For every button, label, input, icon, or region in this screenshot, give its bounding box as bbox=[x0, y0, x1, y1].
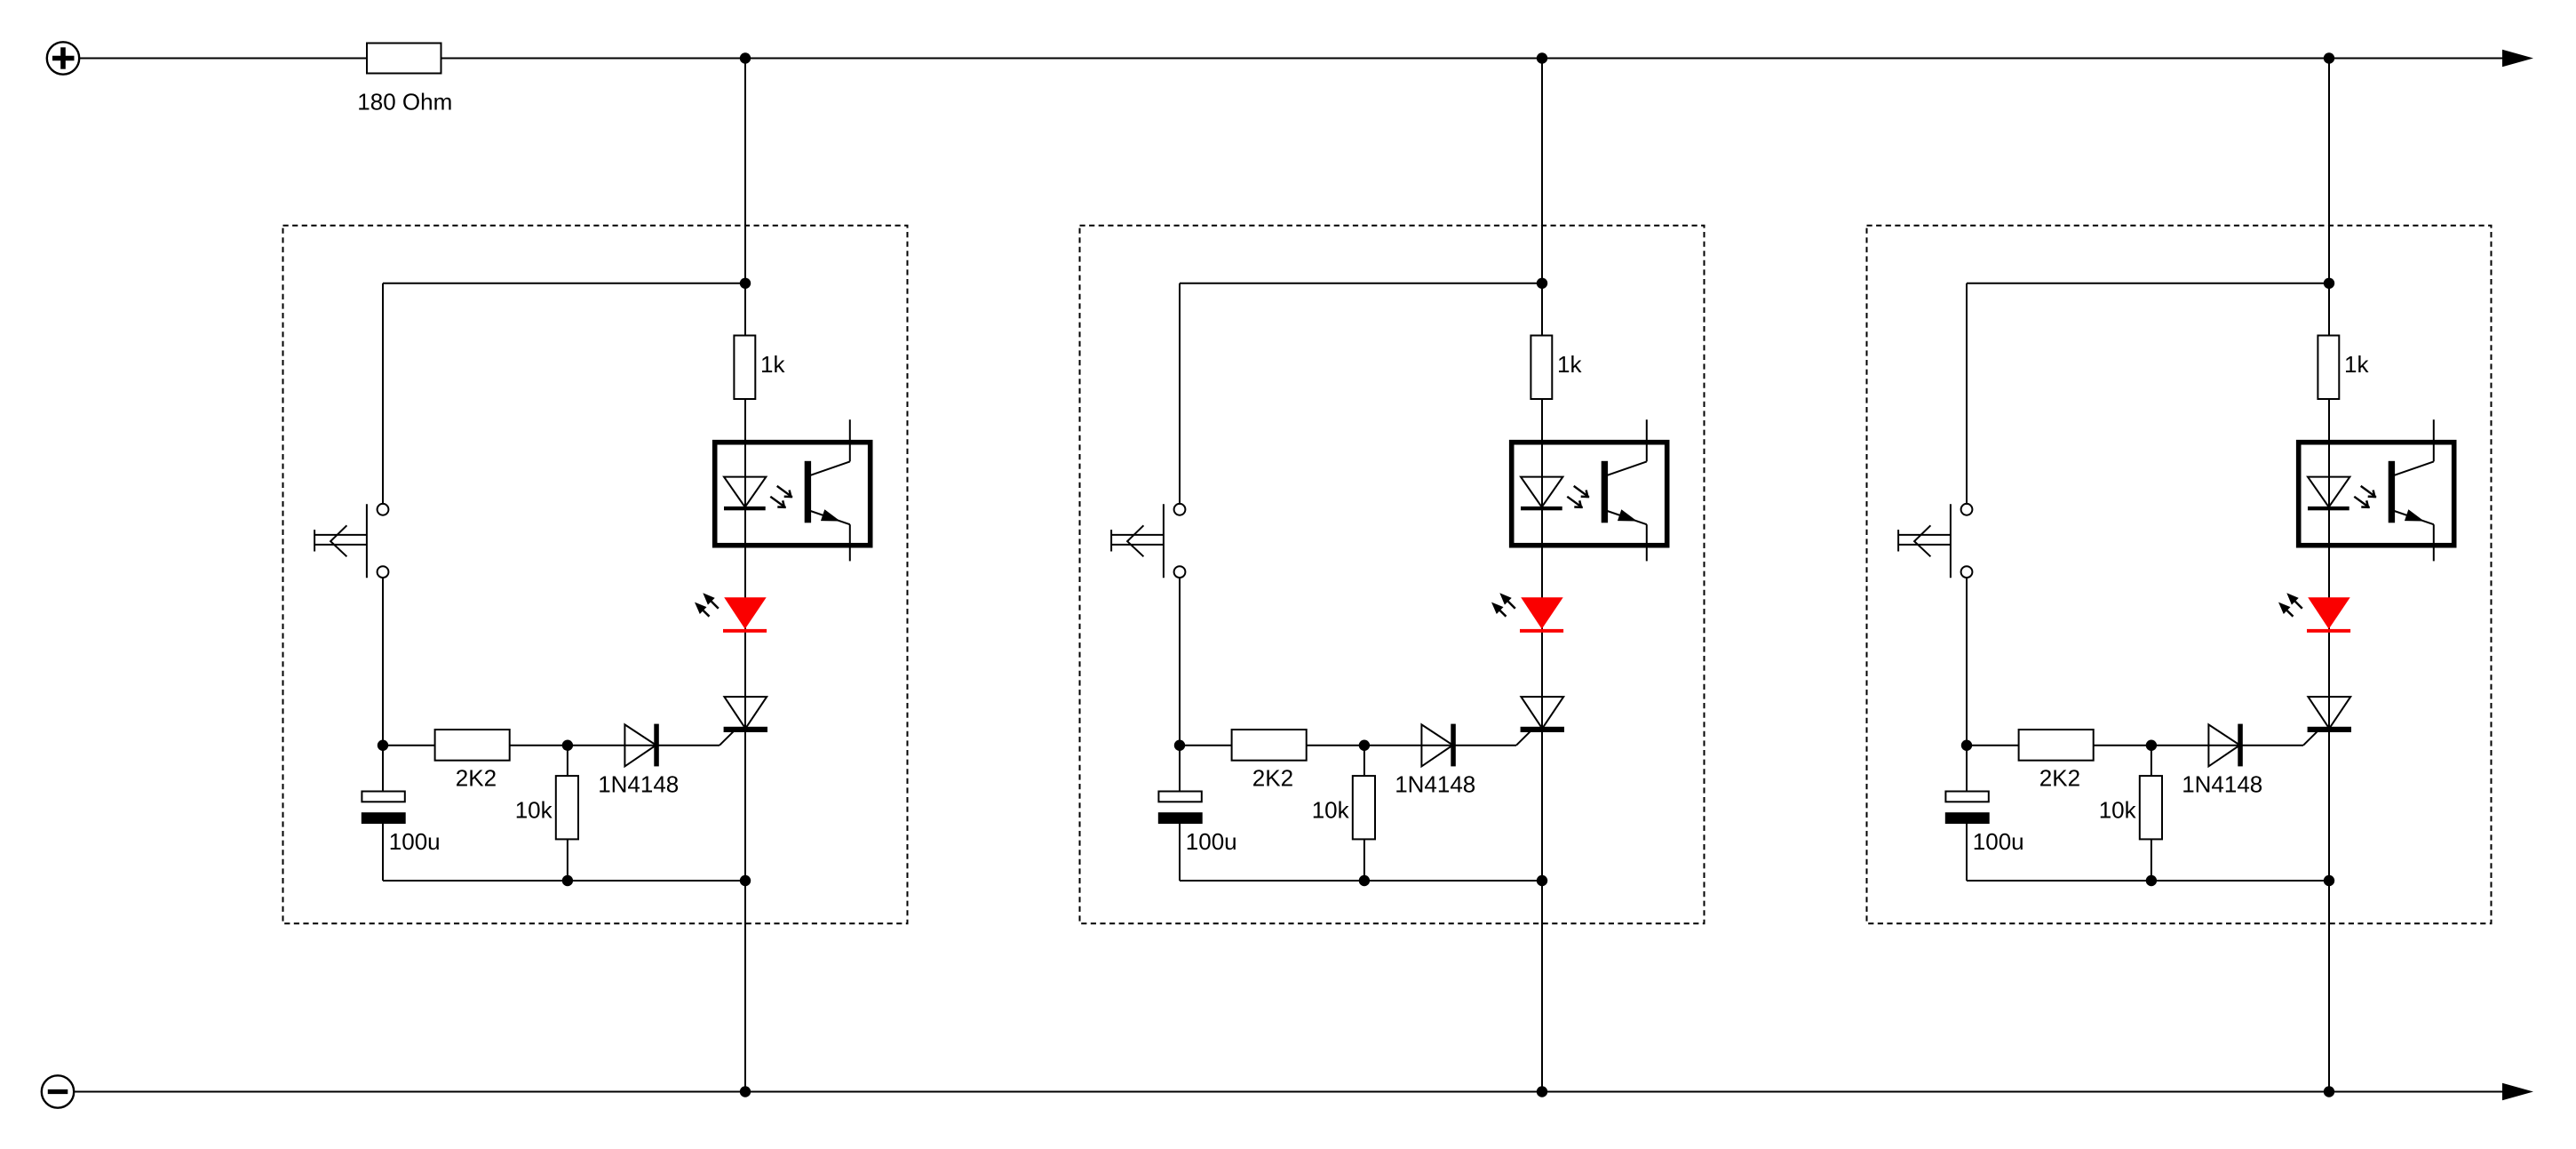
power terminal + bbox=[47, 42, 79, 74]
node stage 1 lower branch left junction bbox=[562, 875, 573, 886]
optocoupler stage 1 body bbox=[715, 443, 871, 546]
LED red indicator stage 3 bbox=[2307, 597, 2350, 633]
svg-text:1N4148: 1N4148 bbox=[2182, 771, 2262, 798]
stage 2 dashed enclosure bbox=[1080, 226, 1705, 924]
wire stage 1 lower branch horizontal bbox=[383, 880, 745, 882]
svg-text:1k: 1k bbox=[760, 351, 785, 378]
resistor 1k stage 1 bbox=[734, 336, 755, 400]
wire stage 1 switch to RC node bbox=[382, 578, 384, 791]
node stage 1 lower branch main junction bbox=[740, 875, 751, 886]
optocoupler stage 2 phototransistor bbox=[1602, 419, 1647, 561]
node stage 1 10k top junction bbox=[562, 740, 573, 751]
wire stage 3 10k lower stub bbox=[2151, 839, 2152, 881]
LED stage 1 emitted light arrows bbox=[695, 593, 719, 617]
node stage 3 upper branch junction bbox=[2324, 278, 2334, 289]
diode 1N4148 stage 2 bbox=[1421, 724, 1455, 767]
resistor 1k stage 3 bbox=[2318, 336, 2339, 400]
wire stage 3 thyristor gate diagonal bbox=[2303, 730, 2318, 746]
power terminal - bbox=[42, 1075, 74, 1107]
optocoupler stage 1 internal LED bbox=[724, 477, 766, 511]
node stage 2 10k top junction bbox=[1359, 740, 1370, 751]
LED red indicator stage 1 bbox=[723, 597, 767, 633]
svg-text:100u: 100u bbox=[389, 828, 441, 855]
optocoupler stage 1 internal light arrows bbox=[770, 486, 792, 508]
node stage 2 V+ rail junction bbox=[1537, 52, 1547, 63]
optocoupler stage 3 body bbox=[2299, 443, 2454, 546]
node stage 1 RC junction bbox=[378, 740, 388, 751]
wire stage 2 10k lower stub bbox=[1364, 839, 1365, 881]
wire stage 3 lower branch horizontal bbox=[1967, 880, 2329, 882]
wire stage 2 lower branch horizontal bbox=[1180, 880, 1542, 882]
wire stage 3 2K2 to diode to gate bend bbox=[2094, 745, 2303, 746]
optocoupler stage 2 body bbox=[1512, 443, 1667, 546]
wire stage 3 upper branch horizontal bbox=[1967, 283, 2329, 284]
node stage 2 lower branch main junction bbox=[1537, 875, 1547, 886]
wire stage 1 thyristor gate diagonal bbox=[720, 730, 735, 746]
V+ rail arrowhead bbox=[2502, 50, 2533, 67]
stage 3 dashed enclosure bbox=[1867, 226, 2492, 924]
wire stage 3 capacitor to lower branch bbox=[1966, 824, 1968, 881]
node stage 2 lower branch left junction bbox=[1359, 875, 1370, 886]
optocoupler stage 3 internal light arrows bbox=[2354, 486, 2376, 508]
wire stage 3 10k upper stub bbox=[2151, 746, 2152, 776]
node stage 3 lower branch left junction bbox=[2146, 875, 2157, 886]
capacitor C1 100u electrolytic bbox=[362, 792, 406, 825]
svg-text:1k: 1k bbox=[2344, 351, 2369, 378]
optocoupler stage 1 phototransistor bbox=[805, 419, 850, 561]
stage 1 dashed enclosure bbox=[283, 226, 908, 924]
node stage 2 GND rail junction bbox=[1537, 1086, 1547, 1097]
node stage 2 upper branch junction bbox=[1537, 278, 1547, 289]
node stage 3 RC junction bbox=[1961, 740, 1972, 751]
node stage 1 upper branch junction bbox=[740, 278, 751, 289]
wire stage 2 10k upper stub bbox=[1364, 746, 1365, 776]
optocoupler stage 3 internal LED bbox=[2308, 477, 2349, 511]
node stage 1 GND rail junction bbox=[740, 1086, 751, 1097]
wire stage 1 left vertical to switch bbox=[382, 283, 384, 504]
thyristor stage 3 bbox=[2308, 697, 2351, 732]
svg-text:2K2: 2K2 bbox=[456, 764, 497, 791]
optocoupler stage 3 phototransistor bbox=[2389, 419, 2434, 561]
wire stage 2 left vertical to switch bbox=[1179, 283, 1181, 504]
LED stage 2 emitted light arrows bbox=[1491, 593, 1515, 617]
wire stage 3 switch to RC node bbox=[1966, 578, 1968, 791]
node stage 3 GND rail junction bbox=[2324, 1086, 2334, 1097]
pushbutton S2 bbox=[1111, 504, 1185, 578]
wire stage 2 main vertical lower bbox=[1541, 399, 1543, 1092]
GND rail arrowhead bbox=[2502, 1083, 2533, 1100]
optocoupler stage 2 internal LED bbox=[1521, 477, 1562, 511]
resistor 10k stage 2 bbox=[1353, 776, 1375, 839]
resistor 2K2 stage 2 bbox=[1232, 730, 1307, 761]
capacitor C2 100u electrolytic bbox=[1158, 792, 1203, 825]
wire stage 3 main vertical lower bbox=[2328, 399, 2330, 1092]
capacitor C3 100u electrolytic bbox=[1945, 792, 1990, 825]
svg-text:2K2: 2K2 bbox=[2039, 764, 2080, 791]
svg-text:10k: 10k bbox=[1312, 797, 1350, 824]
node stage 1 V+ rail junction bbox=[740, 52, 751, 63]
wire stage 1 main vertical upper bbox=[744, 59, 746, 336]
resistor 10k stage 1 bbox=[556, 776, 578, 839]
node stage 2 RC junction bbox=[1174, 740, 1185, 751]
wire stage 1 main vertical lower bbox=[744, 399, 746, 1092]
wire stage 3 RC node to 2K2 bbox=[1967, 745, 2019, 746]
resistor 10k stage 3 bbox=[2140, 776, 2162, 839]
diode 1N4148 stage 1 bbox=[624, 724, 658, 767]
wire stage 2 thyristor gate diagonal bbox=[1516, 730, 1531, 746]
wire stage 1 RC node to 2K2 bbox=[383, 745, 435, 746]
svg-text:100u: 100u bbox=[1186, 828, 1237, 855]
pushbutton S1 bbox=[314, 504, 388, 578]
wire GND rail bbox=[75, 1091, 2504, 1093]
LED red indicator stage 2 bbox=[1520, 597, 1563, 633]
svg-text:1N4148: 1N4148 bbox=[598, 771, 679, 798]
node stage 3 10k top junction bbox=[2146, 740, 2157, 751]
resistor 180 Ohm bbox=[367, 44, 441, 74]
wire stage 2 RC node to 2K2 bbox=[1180, 745, 1232, 746]
wire stage 1 10k upper stub bbox=[567, 746, 568, 776]
svg-text:1N4148: 1N4148 bbox=[1395, 771, 1475, 798]
svg-text:2K2: 2K2 bbox=[1252, 764, 1293, 791]
diode 1N4148 stage 3 bbox=[2208, 724, 2242, 767]
wire stage 3 left vertical to switch bbox=[1966, 283, 1968, 504]
wire stage 3 main vertical upper bbox=[2328, 59, 2330, 336]
wire stage 2 capacitor to lower branch bbox=[1179, 824, 1181, 881]
svg-text:1k: 1k bbox=[1557, 351, 1582, 378]
resistor 2K2 stage 1 bbox=[435, 730, 510, 761]
node stage 3 lower branch main junction bbox=[2324, 875, 2334, 886]
svg-text:180 Ohm: 180 Ohm bbox=[357, 89, 452, 116]
wire stage 1 upper branch horizontal bbox=[383, 283, 745, 284]
svg-text:10k: 10k bbox=[515, 797, 553, 824]
thyristor stage 1 bbox=[724, 697, 767, 732]
thyristor stage 2 bbox=[1521, 697, 1564, 732]
wire stage 2 2K2 to diode to gate bend bbox=[1307, 745, 1516, 746]
resistor 2K2 stage 3 bbox=[2019, 730, 2094, 761]
resistor 1k stage 2 bbox=[1530, 336, 1552, 400]
wire stage 2 main vertical upper bbox=[1541, 59, 1543, 336]
svg-text:10k: 10k bbox=[2099, 797, 2137, 824]
wire stage 1 10k lower stub bbox=[567, 839, 568, 881]
wire stage 1 capacitor to lower branch bbox=[382, 824, 384, 881]
node stage 3 V+ rail junction bbox=[2324, 52, 2334, 63]
optocoupler stage 2 internal light arrows bbox=[1567, 486, 1589, 508]
wire stage 2 upper branch horizontal bbox=[1180, 283, 1542, 284]
LED stage 3 emitted light arrows bbox=[2278, 593, 2302, 617]
pushbutton S3 bbox=[1898, 504, 1972, 578]
wire stage 1 2K2 to diode to gate bend bbox=[510, 745, 720, 746]
svg-text:100u: 100u bbox=[1973, 828, 2024, 855]
wire stage 2 switch to RC node bbox=[1179, 578, 1181, 791]
wire V+ rail bbox=[80, 58, 2504, 60]
